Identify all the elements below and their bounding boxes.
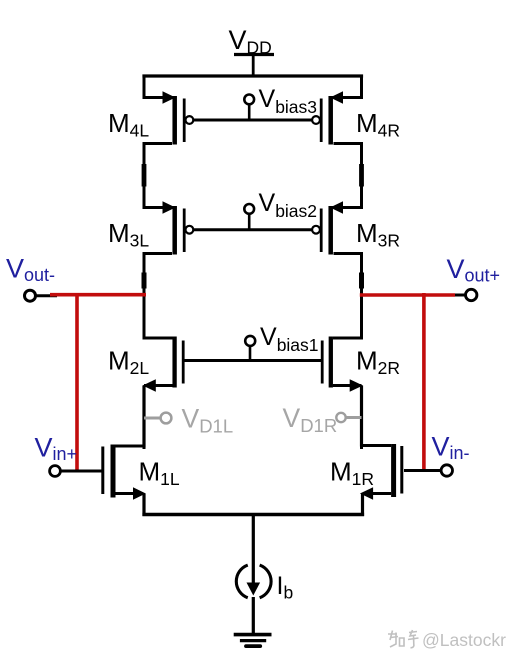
wire: Vbias2 gate bus: [193, 228, 312, 231]
transistor M2L (NMOS cascode): [143, 337, 184, 392]
wire: Vbias3 gate bus: [193, 119, 312, 122]
transistor M4L (PMOS): [144, 75, 193, 168]
wire: M2L source to M1L drain (left branch): [142, 386, 145, 448]
wire: red vertical from Vout- net down to input row (left): [75, 293, 79, 472]
transistor M3L (PMOS): [144, 201, 193, 277]
transistor M2R (NMOS cascode): [322, 337, 363, 392]
node Vbias2: [244, 204, 254, 231]
wire: M2R source to M1R drain (right branch): [360, 386, 363, 447]
terminal Vin+: [50, 466, 61, 477]
transistor M4R (PMOS): [312, 75, 361, 168]
power supply VDD: [234, 55, 274, 78]
wire: red output wire Vout+ horizontal: [360, 293, 455, 297]
wire: red output wire Vout- horizontal: [50, 293, 146, 297]
terminal Vin-: [441, 465, 452, 476]
node VD1L (stub and terminal): [144, 413, 171, 424]
wire: tail stub to current source: [252, 515, 255, 591]
transistor M1R (NMOS input): [360, 444, 442, 500]
wire: Vout- lead (black stub): [36, 294, 58, 297]
svg-text:@Lastockr: @Lastockr: [422, 630, 506, 650]
node VD1R (stub and terminal): [336, 413, 361, 422]
wire: M3L drain to output junction and M2L drain (overlapped thick segment): [142, 273, 147, 340]
wire: M4L drain to M3L source (overlapped thick segment): [142, 164, 147, 208]
terminal Vout-: [25, 290, 36, 301]
wire: red vertical from Vout+ net down to input row (right): [422, 293, 426, 471]
wire: current source to ground: [252, 597, 255, 635]
current source Ib: [236, 565, 271, 598]
transistor M1L (NMOS input): [61, 445, 146, 500]
terminal Vout+: [466, 289, 477, 300]
wire: top supply rail: [142, 74, 363, 77]
node Vbias1: [245, 336, 255, 362]
wire: M4R drain to M3R source (overlapped thick segment): [359, 164, 364, 208]
ground: [234, 635, 272, 647]
wire: Vout+ lead (black stub): [451, 294, 466, 297]
wire: M1R source to tail rail: [361, 494, 364, 517]
transistor M3R (PMOS): [312, 201, 361, 277]
wire: M3R drain to output junction and M2R drain (overlapped thick segment): [359, 273, 364, 340]
wire: bottom tail rail: [142, 513, 364, 517]
wire: Vbias1 gate bus: [183, 359, 322, 362]
watermark 知乎 @Lastockr: [388, 630, 419, 648]
node Vbias3: [244, 95, 254, 122]
wire: M1L source to tail rail: [142, 494, 145, 517]
